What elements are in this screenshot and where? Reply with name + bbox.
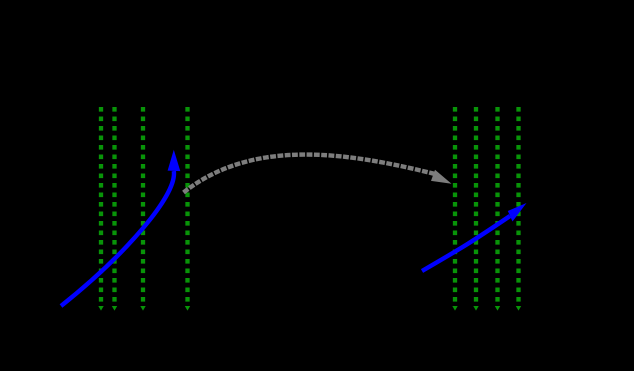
green dashed vertical line L2 (left group) — [112, 107, 117, 311]
blue arrowhead (right curve) — [508, 203, 527, 222]
blue growth curve (right) — [422, 203, 527, 271]
gray dashed arc (shift arrow) — [184, 155, 452, 193]
green dashed vertical line L1 (left group) — [98, 107, 103, 311]
gray arrowhead — [431, 170, 452, 184]
green dashed vertical line L3 (left group) — [140, 107, 145, 311]
green dashed vertical line L4 (left group) — [185, 107, 190, 311]
green dashed vertical line R1 (right group) — [452, 107, 457, 311]
blue growth curve (left) — [61, 150, 180, 306]
green dashed vertical line R4 (right group) — [516, 107, 521, 311]
green dashed vertical line R3 (right group) — [495, 107, 500, 311]
blue arrowhead (left curve) — [168, 150, 181, 171]
green dashed vertical line R2 (right group) — [473, 107, 478, 311]
